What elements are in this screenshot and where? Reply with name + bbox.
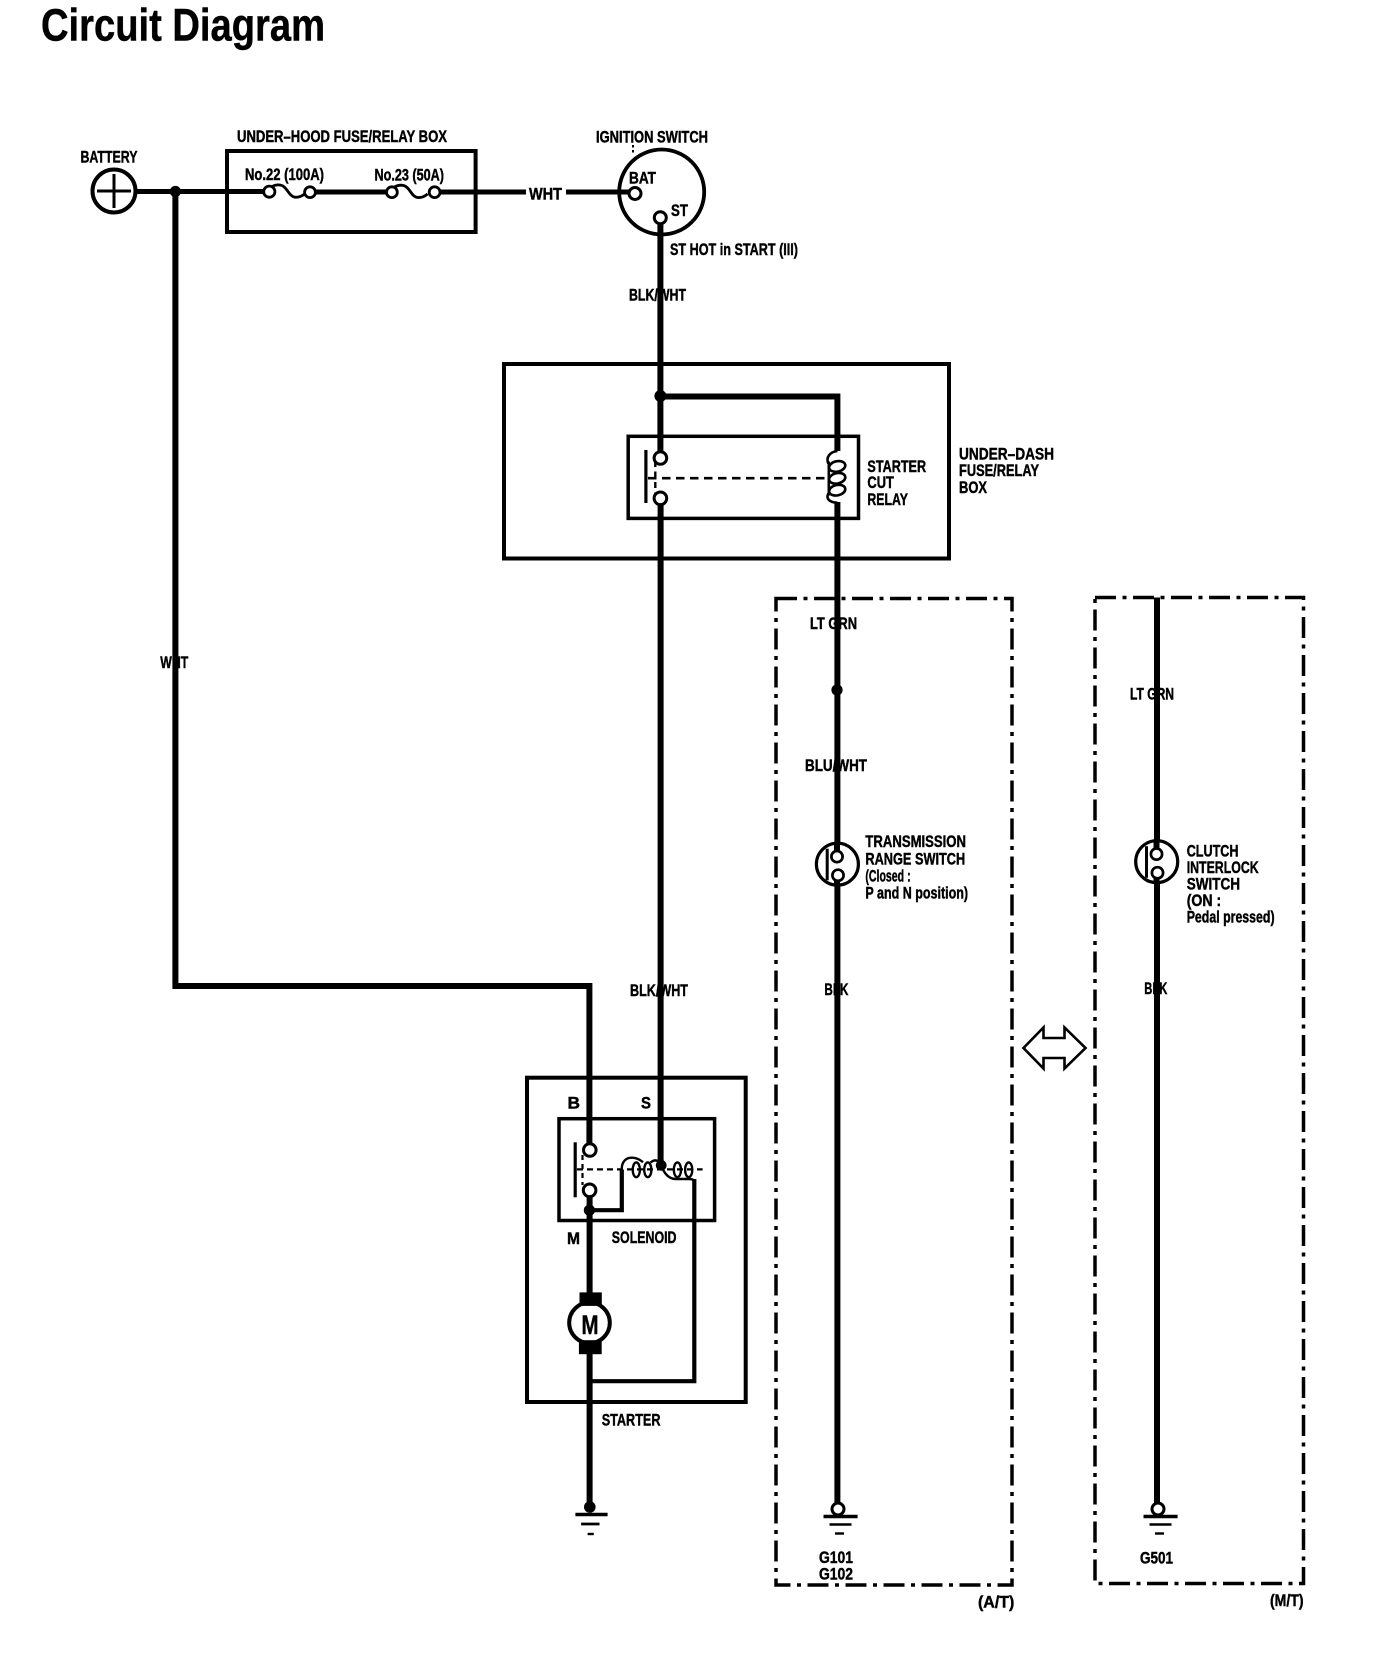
- motor M: [569, 1292, 610, 1354]
- wire M junction to coil start: [589, 1170, 621, 1211]
- wire battery to fuse No.22: [133, 189, 265, 194]
- wire WHT to ignition BAT terminal: [566, 190, 630, 195]
- svg-text:ST: ST: [671, 201, 688, 220]
- solenoid terminal B: [584, 1144, 597, 1157]
- wire junction to relay coil: [660, 397, 837, 452]
- ground G501: [1144, 1503, 1178, 1534]
- svg-text:G102: G102: [819, 1565, 853, 1584]
- svg-text:SOLENOID: SOLENOID: [612, 1228, 677, 1247]
- svg-text:B: B: [568, 1094, 581, 1113]
- starter box: [527, 1078, 746, 1402]
- svg-text:Circuit Diagram: Circuit Diagram: [41, 0, 325, 51]
- wire BLK M/T: [1154, 882, 1160, 1504]
- svg-text:BOX: BOX: [959, 478, 987, 497]
- svg-text:BATTERY: BATTERY: [81, 148, 138, 167]
- under-dash fuse/relay box: [504, 364, 949, 559]
- starter cut relay box: [628, 436, 858, 518]
- relay terminal top: [654, 452, 667, 465]
- svg-text:TRANSMISSION: TRANSMISSION: [865, 832, 966, 851]
- wire coil return to bottom junction: [589, 1179, 694, 1381]
- solenoid contact bar: [574, 1142, 577, 1197]
- ground starter: [575, 1501, 607, 1534]
- terminal BAT: [629, 188, 641, 200]
- svg-text:G501: G501: [1140, 1549, 1173, 1568]
- svg-text:LT GRN: LT GRN: [810, 614, 857, 633]
- junction M: [584, 1205, 595, 1216]
- wire relay coil to A/T LT GRN: [834, 502, 840, 846]
- svg-text:WHT: WHT: [529, 185, 563, 204]
- label STARTER CUT RELAY: [867, 457, 926, 509]
- wire WHT left branch battery to starter B: [175, 189, 589, 1145]
- A/T dashed box: [776, 599, 1012, 1586]
- svg-text:BLU/WHT: BLU/WHT: [805, 756, 867, 775]
- svg-text:BLK: BLK: [824, 980, 848, 999]
- relay linkage dashed horizontal: [648, 477, 826, 480]
- junction node relay input: [654, 390, 666, 402]
- svg-text:No.23 (50A): No.23 (50A): [375, 166, 445, 185]
- relay coil: [828, 451, 847, 503]
- svg-text:IGNITION SWITCH: IGNITION SWITCH: [596, 128, 708, 147]
- svg-text:WHT: WHT: [160, 653, 188, 672]
- svg-text:P and N position): P and N position): [865, 883, 968, 902]
- solenoid linkage dashed horizontal: [577, 1168, 703, 1170]
- label TRANSMISSION RANGE SWITCH: [865, 832, 968, 903]
- svg-text:(A/T): (A/T): [978, 1593, 1014, 1612]
- label UNDER-DASH FUSE/RELAY BOX: [959, 445, 1054, 498]
- svg-text:UNDER–HOOD FUSE/RELAY BOX: UNDER–HOOD FUSE/RELAY BOX: [237, 127, 448, 146]
- fuse No.22 (100A): [264, 185, 316, 198]
- solenoid coil: [622, 1158, 695, 1182]
- svg-text:STARTER: STARTER: [602, 1411, 661, 1430]
- svg-text:M: M: [582, 1310, 599, 1340]
- relay linkage dashed vertical: [654, 461, 656, 497]
- svg-text:ST HOT in START (III): ST HOT in START (III): [670, 240, 798, 259]
- svg-text:BLK: BLK: [1144, 979, 1167, 998]
- leader dots ignition: [632, 145, 634, 154]
- under-hood fuse/relay box: [227, 151, 476, 232]
- wire between fuses: [314, 190, 388, 195]
- wire junction to relay contact: [657, 395, 663, 453]
- ground G101 G102: [824, 1503, 858, 1534]
- battery: [93, 170, 136, 213]
- junction battery branch: [170, 186, 181, 197]
- svg-text:BLK/WHT: BLK/WHT: [630, 981, 688, 1000]
- ignition switch: [619, 150, 704, 235]
- svg-text:BAT: BAT: [629, 169, 656, 188]
- fuse No.23 (50A): [387, 185, 441, 197]
- relay contact bar: [644, 450, 647, 503]
- terminal ST: [654, 212, 666, 224]
- svg-text:No.22 (100A): No.22 (100A): [245, 165, 324, 184]
- svg-text:M: M: [567, 1229, 580, 1248]
- svg-text:S: S: [641, 1094, 651, 1113]
- relay terminal bottom: [654, 492, 667, 505]
- svg-text:RELAY: RELAY: [867, 490, 908, 509]
- wire LT GRN M/T: [1154, 598, 1160, 844]
- transmission range switch: [816, 843, 858, 886]
- solenoid box: [559, 1119, 715, 1221]
- svg-text:LT GRN: LT GRN: [1130, 685, 1174, 704]
- M/T dashed box: [1095, 598, 1304, 1584]
- wire M terminal to motor: [587, 1197, 593, 1296]
- svg-text:Pedal pressed): Pedal pressed): [1187, 908, 1275, 927]
- clutch interlock switch: [1136, 841, 1178, 884]
- label CLUTCH INTERLOCK SWITCH: [1187, 842, 1275, 927]
- solenoid terminal M: [583, 1184, 596, 1197]
- wire motor to starter ground: [587, 1352, 593, 1504]
- svg-text:(M/T): (M/T): [1270, 1591, 1304, 1610]
- connector junction A/T: [831, 684, 842, 695]
- label G101 G102: [819, 1548, 853, 1584]
- svg-text:BLK/WHT: BLK/WHT: [629, 286, 686, 305]
- wire BLK A/T: [834, 884, 840, 1504]
- wire fuse No.23 to WHT label: [439, 190, 526, 195]
- double arrow A/T M/T: [1024, 1028, 1086, 1069]
- solenoid linkage dashed vertical: [581, 1155, 583, 1185]
- wire relay contact to solenoid S BLK/WHT: [658, 503, 664, 1165]
- wire ST terminal down BLK/WHT: [657, 222, 663, 395]
- junction S coil: [656, 1160, 667, 1171]
